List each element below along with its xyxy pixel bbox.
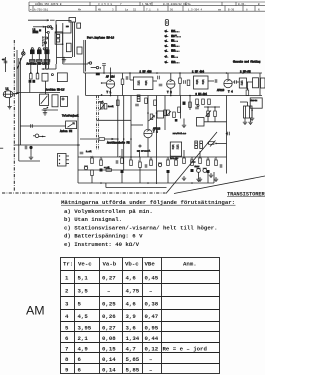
ground G14 [209, 173, 213, 178]
switch contact S2a [50, 26, 52, 28]
cap C10 [184, 80, 186, 84]
cap C30 top [43, 109, 47, 111]
svg-text:W-36-0408/02 DG/AL: W-36-0408/02 DG/AL [163, 2, 191, 6]
svg-text:56: 56 [170, 8, 174, 11]
wire coupling row [17, 92, 60, 94]
vert x139.5 [139, 150, 141, 157]
svg-text:Telefonjack: Telefonjack [62, 115, 79, 118]
svg-text:Vb-c: Vb-c [125, 261, 139, 268]
svg-text:5: 5 [65, 325, 69, 332]
small box mid-right [197, 118, 205, 127]
band row 7 blob [164, 60, 169, 63]
resistor R35 [214, 111, 217, 117]
svg-text:7: 7 [65, 346, 69, 353]
node under box [62, 43, 64, 45]
svg-text:3 4 5 6 8: 3 4 5 6 8 [98, 3, 112, 6]
box bottom line [97, 119, 131, 121]
ground G5 [7, 104, 11, 109]
resistor R24 [175, 160, 178, 166]
node audio a [130, 156, 132, 158]
RF box C [61, 96, 68, 106]
svg-text:3,6: 3,6 [126, 325, 137, 332]
wire y110 [42, 109, 58, 111]
IF box M2 [77, 23, 81, 28]
title block left edge [28, 2, 30, 11]
band row 3 blob [164, 39, 169, 42]
trimmer cap C3b [43, 48, 45, 50]
band symbol column: battery sym [165, 20, 168, 26]
vert x117.8 [117, 96, 119, 158]
wire vert x62.8 [62, 23, 64, 64]
node x190 [189, 95, 191, 97]
resistor R10 [164, 110, 167, 116]
ground bar G13 [191, 161, 195, 163]
ground G7 [243, 120, 247, 125]
rail nodes [100, 182, 102, 184]
svg-text:MW...: MW... [171, 40, 178, 43]
svg-text:Dra/Pri-LS: Dra/Pri-LS [173, 132, 187, 135]
svg-text:MW3...: MW3... [171, 50, 179, 53]
lamp crystal X1 [22, 52, 26, 56]
svg-text:A-736-561: A-736-561 [34, 8, 48, 11]
switch contact S3 [51, 74, 53, 76]
vert x78 [77, 96, 79, 184]
table column lines [74, 258, 76, 374]
ground G6 [250, 116, 254, 121]
svg-text:Mätningarna utförda under följ: Mätningarna utförda under följande förut… [61, 199, 235, 206]
svg-text:M8: M8 [98, 8, 102, 11]
wire T1 emitter [110, 88, 112, 95]
top box A [56, 21, 71, 33]
band row 4 blob [164, 44, 169, 47]
wire T2 collector [170, 73, 172, 80]
left frame vertical wire [16, 50, 18, 93]
switch contact S1b [47, 31, 49, 33]
cap C19 [80, 152, 84, 154]
mid box H4 [55, 32, 63, 44]
corner bottom left [19, 160, 40, 162]
cap C12 [235, 80, 237, 84]
signal bus [84, 72, 262, 74]
node rail/vert [45, 26, 47, 28]
RF box B [52, 95, 58, 107]
svg-text:–: – [107, 288, 110, 295]
left margin fold tick [0, 147, 3, 149]
svg-text:4,5: 4,5 [78, 313, 89, 320]
resistor R20 [130, 160, 133, 166]
wire y125 link [131, 124, 143, 126]
band row 5 blob [164, 49, 169, 52]
vert x123.7 [123, 96, 125, 171]
node G1 [63, 57, 65, 59]
coil can A top circle [31, 48, 33, 50]
left vert pair a [18, 58, 20, 161]
svg-text:–: – [149, 367, 152, 374]
svg-text:Ve-c: Ve-c [78, 261, 92, 268]
svg-text:e) Instrument: 40 kΩ/V: e) Instrument: 40 kΩ/V [64, 241, 140, 248]
padder blob pair [29, 80, 32, 83]
svg-text:3,9: 3,9 [126, 313, 137, 320]
node y69 b [46, 68, 48, 70]
wire cap down [30, 149, 32, 155]
svg-text:a) Volymkontrollen på min.: a) Volymkontrollen på min. [64, 208, 153, 215]
transistor T3 [224, 79, 232, 87]
mid cluster: resistor R30 banded [195, 141, 198, 149]
padding cap box [42, 73, 48, 81]
osc link wire [91, 67, 97, 69]
blob B7 [183, 102, 186, 105]
svg-text:04 DG 356 48578 B: 04 DG 356 48578 B [35, 3, 62, 6]
svg-text:5,85: 5,85 [126, 356, 140, 363]
coil can B body [37, 50, 42, 55]
vert x165 [164, 96, 166, 131]
svg-text:0,08: 0,08 [102, 335, 116, 342]
wire y145 [14, 144, 80, 146]
ground G8 [29, 155, 33, 160]
resistor Ra [30, 74, 33, 80]
vert x226.5 boundary [226, 96, 228, 174]
wire y107 [204, 106, 220, 108]
band row 1 blob [164, 29, 169, 32]
resistor R15 [91, 158, 94, 164]
resistor R3 [187, 80, 190, 86]
title block dividers [32, 6, 34, 12]
vert x156.5 long [156, 96, 158, 185]
svg-text:0,44: 0,44 [145, 335, 159, 342]
svg-text:W-36-: W-36- [238, 3, 246, 6]
MF2 coil b [202, 80, 204, 85]
trim arrow mid [210, 141, 216, 147]
osc blob on bus [96, 73, 100, 76]
svg-text:0,95: 0,95 [145, 325, 159, 332]
wire TR2 down b [250, 118, 252, 120]
table outer border [61, 258, 220, 374]
svg-text:10MF: 10MF [195, 165, 201, 168]
svg-text:0,47: 0,47 [145, 313, 159, 320]
cap C14 [135, 104, 139, 106]
rail node a [110, 95, 112, 97]
title block row2 text [30, 8, 260, 11]
svg-text:MW1...: MW1... [171, 30, 179, 33]
resistor R2 [179, 78, 182, 84]
svg-text:3,95: 3,95 [78, 325, 92, 332]
table row lines [61, 270, 220, 272]
resistor R22 [150, 160, 153, 166]
bus nodes [103, 72, 105, 74]
transistor T1 [106, 80, 114, 88]
coil can C body [44, 50, 49, 55]
svg-text:8: 8 [65, 356, 69, 363]
vertical wire left cluster [45, 27, 47, 33]
elect cap C18 [29, 146, 32, 149]
resistor R5b [104, 104, 107, 110]
svg-text:–: – [149, 288, 152, 295]
svg-text:AF116: AF116 [217, 89, 225, 92]
TR2 hatch [245, 106, 247, 118]
wire jack left [20, 125, 66, 127]
resistor R16 [91, 170, 94, 176]
wire T5 up [147, 96, 149, 130]
wire to S1b [46, 31, 48, 33]
jack box J1 [66, 121, 77, 129]
trim arrow [167, 111, 172, 116]
diagonal pointer line [166, 132, 217, 194]
coil L3 [42, 36, 45, 47]
node y107 a [207, 106, 209, 108]
audio row stems top [91, 157, 93, 158]
node x78 [77, 144, 79, 146]
wire lamp stem [22, 49, 24, 52]
svg-text:Vol: Vol [100, 101, 105, 104]
svg-text:25MH: 25MH [33, 31, 39, 34]
svg-text:c) Stationsvisaren/-visarna/: c) Stationsvisaren/-visarna/ helt till h… [64, 224, 218, 231]
cap C22 [145, 164, 147, 168]
wire out MF1 [153, 80, 157, 82]
svg-text:5,85: 5,85 [126, 367, 140, 374]
svg-text:2,1: 2,1 [78, 335, 89, 342]
svg-text:Re = e – jord: Re = e – jord [163, 346, 208, 353]
coil can B pad [37, 60, 42, 62]
vert x131 [130, 96, 132, 158]
svg-text:Anm.: Anm. [183, 261, 197, 268]
trimmer cap C2 [46, 37, 48, 39]
inductor L2 core [39, 29, 41, 31]
svg-text:–: – [149, 356, 152, 363]
svg-text:4: 4 [65, 313, 69, 320]
svg-text:4,6: 4,6 [126, 301, 137, 308]
C26b stem+ground [198, 172, 200, 177]
svg-text:1: 1 [65, 275, 69, 282]
svg-text:2 MF-464: 2 MF-464 [195, 93, 207, 96]
node T1 rail [101, 94, 103, 96]
wire boundary cap [216, 142, 227, 144]
node cluster a [207, 142, 209, 144]
resistor R8b banded [137, 95, 140, 102]
svg-text:0,27: 0,27 [102, 325, 116, 332]
resistor R21 [139, 162, 142, 168]
wire antenna down [9, 98, 11, 105]
stems cans to pads [31, 54, 33, 59]
wire R7 out arrow [105, 138, 118, 140]
title block very top line [29, 1, 265, 3]
IF transformer box MF2 [194, 76, 209, 89]
switch contact S2b [51, 28, 53, 30]
antenna tap node [16, 92, 18, 94]
node antenna [16, 93, 18, 95]
svg-text:N: N [258, 8, 260, 11]
node stem B [37, 72, 39, 74]
wire vert x190 [189, 96, 191, 111]
wire T5 down [147, 138, 149, 157]
IF transformer box MF1 [133, 77, 153, 90]
ground G7b [248, 120, 252, 125]
cap C7 [126, 76, 128, 80]
svg-text:Me: Me [78, 8, 82, 11]
wire arrow to switch [47, 19, 49, 21]
cap C17 [25, 146, 27, 150]
wire top rail right [50, 19, 55, 21]
trim arrow R34 [206, 111, 212, 117]
svg-text:Avstämn MW-LW-LS: Avstämn MW-LW-LS [27, 63, 51, 66]
wire to mixer [63, 63, 88, 65]
title block row1 text [35, 2, 260, 6]
wire y139 left [80, 138, 99, 140]
resistor R32 horizontal [209, 142, 215, 145]
band row 2 blob [164, 34, 169, 37]
svg-text:0,15: 0,15 [102, 346, 116, 353]
node stem A [30, 72, 32, 74]
svg-text:Avstämn MW-LW: Avstämn MW-LW [46, 88, 65, 91]
wire T2 emitter [170, 88, 172, 95]
svg-text:T 2: T 2 [167, 91, 172, 94]
left edge stub wire [5, 57, 7, 72]
node b y139 [123, 138, 125, 140]
dense cluster right: resistor R11 [196, 99, 199, 105]
IF box M3 [66, 43, 71, 52]
resistor R14c [178, 107, 181, 113]
wire det down [251, 108, 253, 116]
left vert pair b [19, 58, 21, 145]
trimmer cap C3 [45, 42, 47, 44]
dial cord diagonal [17, 56, 23, 69]
cap C15 [195, 107, 199, 109]
svg-text:220: 220 [99, 158, 103, 161]
cap C11 [215, 79, 217, 83]
transistor T2 [167, 80, 175, 88]
TR1b coil a [172, 145, 174, 150]
svg-text:6: 6 [157, 8, 159, 11]
cap C9 [159, 84, 163, 86]
tuning gang line a [72, 22, 74, 57]
svg-text:8: 8 [246, 8, 248, 11]
bottom rail [78, 182, 214, 184]
resistor R28 [207, 160, 210, 166]
svg-text:b) Utan insignal.: b) Utan insignal. [64, 216, 122, 223]
node fet [42, 136, 44, 138]
detector box D1 [250, 98, 262, 108]
jack arrow [68, 123, 75, 128]
right edge box partial [261, 78, 266, 88]
svg-text:4.7k: 4.7k [104, 166, 110, 169]
node boundary [226, 133, 228, 135]
svg-text:3,5: 3,5 [78, 288, 89, 295]
svg-text:3: 3 [112, 8, 114, 11]
svg-text:2: 2 [65, 288, 69, 295]
blob B6 [175, 119, 178, 122]
wire T3 out [232, 81, 234, 83]
svg-text:1a: 1a [125, 8, 129, 11]
MF1 coil a [137, 81, 139, 86]
osc coupling circle A [89, 62, 91, 64]
diagonal pointer line 2 [174, 176, 265, 194]
cap C16 [207, 113, 209, 117]
horizontal wire y170 [78, 169, 157, 171]
svg-text:Anten FM: Anten FM [60, 130, 73, 133]
horizontal wire y157 [78, 156, 227, 158]
stems R34 R35 [207, 107, 209, 111]
ground G9 [182, 176, 186, 181]
resistor R23 [167, 160, 170, 166]
svg-text:4,75: 4,75 [126, 288, 140, 295]
resistor R25 [183, 158, 186, 164]
svg-text:KW...: KW... [171, 55, 178, 58]
RF box A [57, 73, 67, 82]
resistor R14b [173, 112, 176, 118]
svg-text:C1: C1 [2, 58, 5, 61]
resistor R29 [215, 160, 218, 166]
svg-text:0,27: 0,27 [102, 275, 116, 282]
stems pads down [30, 62, 32, 73]
wire stub above bus b [110, 68, 112, 74]
node osc A [88, 62, 89, 63]
svg-text:0,14: 0,14 [102, 356, 116, 363]
cap C24 [220, 164, 222, 168]
cap at boundary [228, 132, 230, 136]
cap C27 on stub [102, 64, 106, 66]
svg-text:1 SB/P: 1 SB/P [142, 2, 152, 6]
bottom rail 2 [106, 187, 167, 189]
svg-text:1,34: 1,34 [126, 335, 140, 342]
svg-text:4,6: 4,6 [126, 275, 137, 282]
resistor R4 [246, 90, 249, 96]
box C inner circle [62, 98, 64, 100]
rail node b [170, 95, 172, 97]
node y107 b [214, 106, 216, 108]
driver transformer box TR1b [170, 142, 181, 156]
coil can B top circle [38, 48, 40, 50]
svg-text:1 MF 464: 1 MF 464 [192, 71, 205, 74]
tuning gang line b [74, 22, 76, 57]
black blob B3 [167, 170, 170, 173]
resistor R13 [208, 99, 211, 105]
svg-text:Tr:: Tr: [63, 261, 73, 268]
svg-text:3: 3 [65, 301, 69, 308]
bottom page dash-dot line [2, 192, 166, 194]
wire node down [246, 82, 248, 90]
svg-text:100k: 100k [108, 105, 114, 108]
black blob B4 [191, 169, 194, 172]
wire antenna to tuning [13, 93, 19, 95]
node cluster b [215, 143, 217, 145]
black blob B5 [207, 170, 210, 173]
ground G12 [43, 111, 47, 116]
transistor T5 [144, 129, 152, 137]
node osc B [100, 67, 101, 68]
resistor R14a [167, 110, 170, 116]
svg-text:0,45: 0,45 [145, 275, 159, 282]
svg-text:2 MF-FM: 2 MF-FM [240, 71, 251, 74]
wire T3 collector [227, 73, 229, 79]
svg-text:MW2...: MW2... [171, 45, 179, 48]
svg-text:0,12: 0,12 [145, 346, 159, 353]
resistor R12 [202, 99, 205, 105]
svg-text:2k2: 2k2 [149, 158, 153, 161]
svg-text:=: = [30, 8, 32, 11]
DIN box J2 [58, 154, 67, 167]
pin dots [59, 155, 60, 156]
svg-text:4,9: 4,9 [78, 346, 89, 353]
wire vert x56.5 [56, 25, 58, 65]
resistor R19 [121, 158, 124, 164]
wire x56 link [55, 64, 57, 69]
svg-text:H3: H3 [66, 25, 69, 28]
coil can A pad [30, 60, 35, 62]
svg-text:4,7: 4,7 [126, 346, 137, 353]
wire into MF1 [129, 73, 131, 80]
svg-text:6: 6 [78, 356, 82, 363]
svg-text:Ferr.kaplane MW-LS: Ferr.kaplane MW-LS [87, 36, 115, 39]
MF1 coil b [145, 81, 147, 86]
